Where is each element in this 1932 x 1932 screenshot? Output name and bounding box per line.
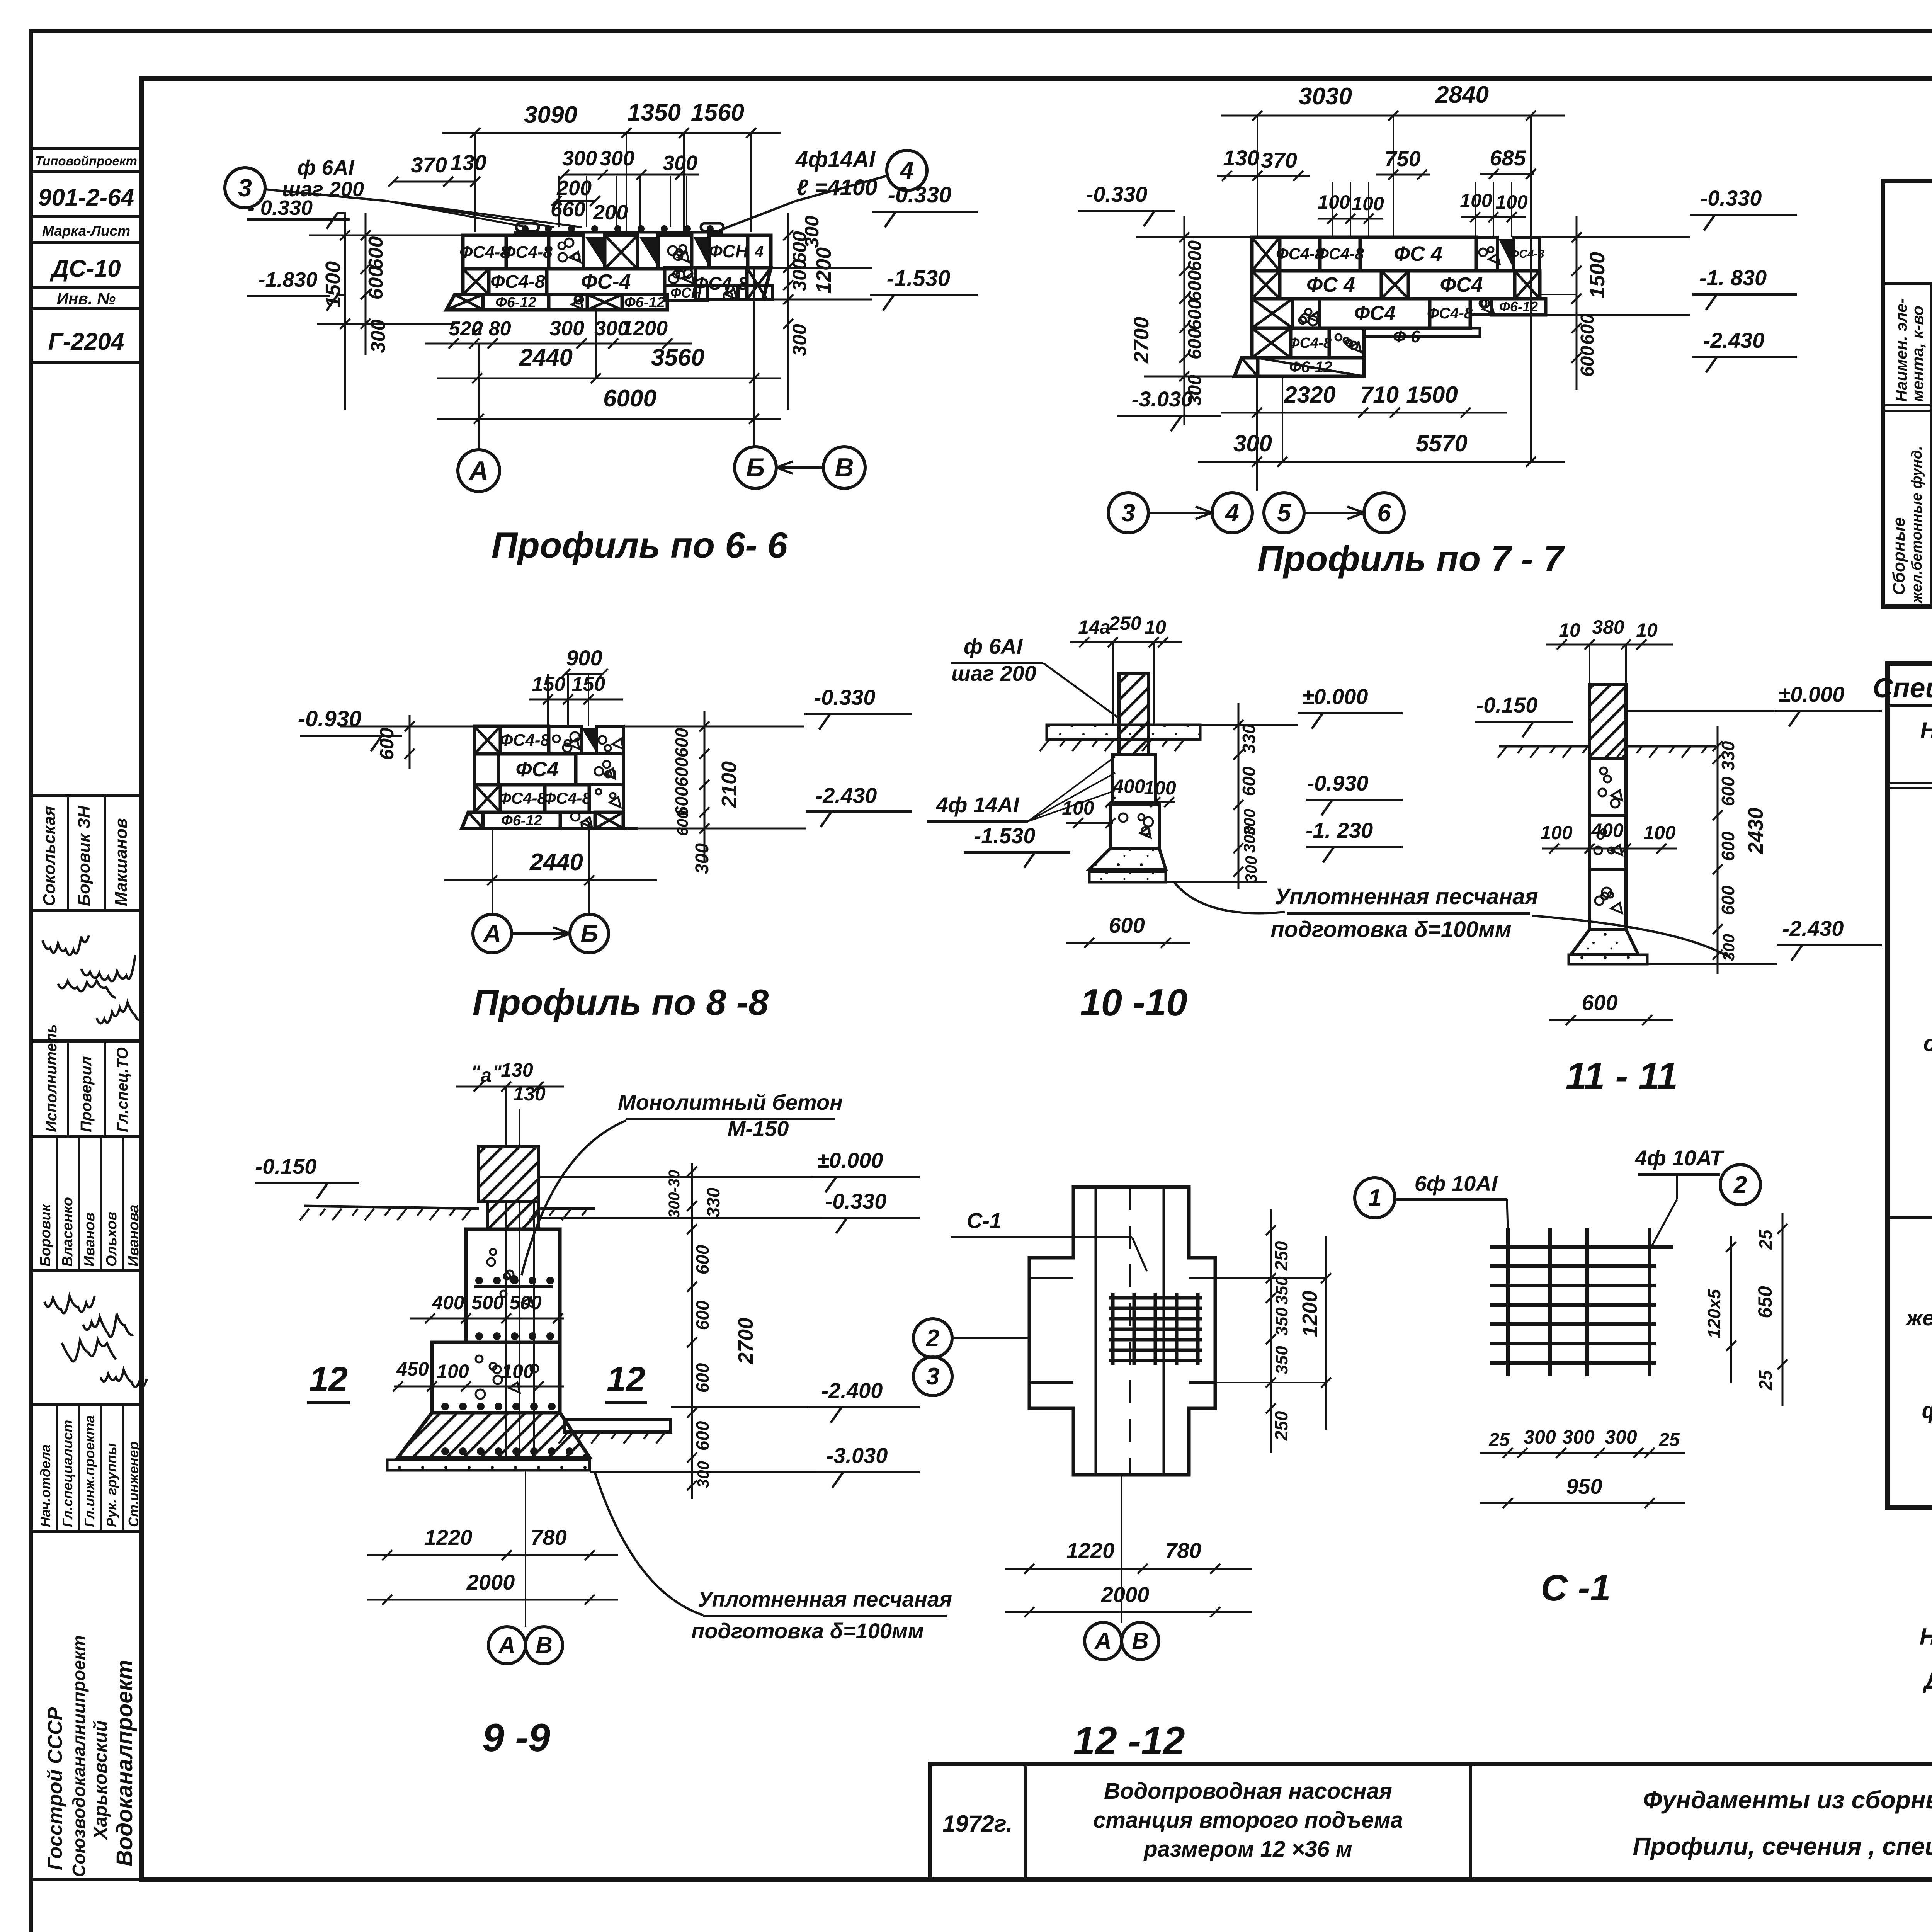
svg-text:2: 2 [1733,1172,1747,1198]
svg-text:Проверил: Проверил [78,1056,95,1132]
svg-text:Исполнитель: Исполнитель [43,1024,60,1132]
svg-text:- 0.330: - 0.330 [248,196,313,219]
profile 7-7 top dims 3030/2840 [1221,115,1565,117]
svg-text:ФС4-8: ФС4-8 [490,272,545,292]
C-1 callout circle 1 [1355,1178,1395,1218]
svg-text:Уплотненная песчаная: Уплотненная песчаная [698,1587,952,1611]
svg-text:ФС4-8: ФС4-8 [502,243,553,262]
svg-text:200: 200 [593,201,628,224]
svg-text:-0.150: -0.150 [255,1154,317,1179]
10-10 right dims [1238,703,1240,889]
svg-text:600: 600 [672,757,692,787]
table: Спецификация сборных железобетонных элементов [1888,663,1932,1508]
svg-text:600: 600 [1718,885,1738,915]
sidebar box: Марка-Лист [31,217,141,242]
svg-text:-0.150: -0.150 [1476,693,1538,717]
svg-text:600: 600 [692,1363,713,1393]
svg-text:6: 6 [1377,499,1391,527]
svg-text:400: 400 [1112,776,1145,797]
svg-text:600: 600 [692,1300,713,1330]
svg-text:ДС-8 , ДС-9 , ДС-11.: ДС-8 , ДС-9 , ДС-11. [1922,1668,1932,1694]
svg-text:-2.430: -2.430 [816,783,877,808]
svg-text:100: 100 [1643,822,1676,844]
svg-text:600: 600 [692,1245,713,1274]
svg-text:350: 350 [1272,1307,1291,1336]
sidebar stamp: signatures block 1 [31,910,141,1041]
sidebar stamp: roles block [31,1041,141,1137]
9-9 monolith block A [466,1229,560,1342]
12-12 mesh C-1 [1109,1296,1202,1300]
profile 8-8 wall row 1 [474,726,500,754]
profile 8-8 right dims [704,711,706,862]
svg-text:В: В [1132,1628,1148,1654]
C-1 bottom dims 25/300/300/300/25 [1480,1452,1685,1454]
svg-text:10: 10 [1559,619,1580,641]
svg-text:150: 150 [532,673,566,696]
sidebar box: Инв. № [31,288,141,309]
sidebar stamp: names block 1 [31,796,141,910]
svg-text:130: 130 [450,150,486,175]
sidebar box: Типовой проект [31,148,141,172]
svg-text:1500: 1500 [321,261,345,308]
profile 7-7 right dims [1576,216,1578,390]
svg-text:Союзводоканалниипроект: Союзводоканалниипроект [69,1635,89,1877]
svg-text:600: 600 [376,728,398,760]
svg-text:1200: 1200 [621,317,668,340]
svg-text:10: 10 [1636,619,1658,641]
profile 6-6 wall blocks row 1 [463,235,506,269]
12-12 bottom dims 1220/780 [1005,1568,1252,1570]
svg-text:шаг 200: шаг 200 [951,661,1036,685]
svg-text:100: 100 [1460,190,1492,211]
svg-text:ФС4-8: ФС4-8 [1316,245,1364,263]
svg-text:С-1: С-1 [967,1208,1002,1233]
svg-text:Боровик: Боровик [37,1203,54,1267]
svg-text:4: 4 [755,243,764,260]
svg-text:4: 4 [899,156,914,184]
svg-text:Водопроводная насосная: Водопроводная насосная [1104,1779,1392,1804]
sidebar box: 901-2-64 [31,172,141,217]
svg-text:250: 250 [1271,1241,1291,1271]
svg-text:300: 300 [692,843,713,874]
svg-text:900: 900 [566,646,602,670]
svg-text:330: 330 [703,1187,723,1217]
profile 6-6 wall blocks row 3 (Ф6-12 strip) [446,294,483,310]
svg-text:-3.030: -3.030 [827,1443,888,1468]
svg-text:Харьковский: Харьковский [90,1720,111,1840]
svg-text:300: 300 [694,1461,712,1488]
svg-text:Сокольская: Сокольская [40,806,59,906]
svg-text:12: 12 [309,1360,348,1399]
svg-text:300: 300 [1240,826,1259,853]
profile 6-6 wall blocks row 2 [463,269,489,294]
svg-text:300: 300 [801,216,823,248]
svg-text:901-2-64: 901-2-64 [38,184,134,211]
callout circle 4 with 4ф14АІ l=4100 [887,150,927,190]
svg-text:1200: 1200 [1298,1291,1321,1337]
svg-text:685: 685 [1490,146,1526,170]
svg-text:1500: 1500 [1406,382,1458,408]
svg-text:400: 400 [1591,820,1624,841]
svg-text:660: 660 [551,198,585,221]
svg-text:-0.930: -0.930 [1307,771,1369,795]
C-1 callout circle 2 [1720,1165,1760,1205]
11-11 hatched column [1590,684,1626,759]
svg-text:Инв. №: Инв. № [57,289,116,308]
svg-text:100: 100 [1062,797,1094,819]
svg-text:600: 600 [365,266,387,300]
svg-text:2700: 2700 [734,1318,757,1364]
12-12 right dims [1270,1209,1272,1453]
svg-text:300: 300 [1605,1426,1637,1448]
svg-text:Уплотненная песчаная: Уплотненная песчаная [1275,884,1538,909]
svg-text:мента, к-во: мента, к-во [1908,306,1927,402]
svg-text:-1. 830: -1. 830 [1699,265,1767,290]
svg-text:12 -12: 12 -12 [1073,1719,1185,1763]
svg-text:400: 400 [432,1292,464,1313]
svg-text:25: 25 [1755,1229,1776,1250]
svg-text:12: 12 [607,1360,645,1399]
profile 6-6 dim 6000 [437,418,781,420]
sidebar stamp: signatures block 2 [31,1271,141,1405]
svg-text:-2.430: -2.430 [1782,916,1844,940]
svg-text:2000: 2000 [466,1570,515,1594]
svg-text:370: 370 [411,153,447,177]
svg-text:ФС4-8: ФС4-8 [500,731,550,750]
svg-text:6ф 10АІ: 6ф 10АІ [1415,1171,1498,1196]
svg-text:А: А [498,1632,515,1658]
svg-text:10: 10 [1145,616,1166,638]
svg-text:450: 450 [396,1358,429,1380]
svg-text:Иванов: Иванов [82,1213,98,1267]
svg-text:1: 1 [1368,1185,1381,1211]
profile 7-7 wall row 4 [1252,328,1291,358]
C-1 right dims [1782,1213,1784,1406]
svg-text:300: 300 [789,324,810,356]
9-9 monolith block B [432,1342,560,1413]
svg-text:250: 250 [1109,612,1141,634]
svg-text:11 - 11: 11 - 11 [1566,1054,1678,1097]
profile 7-7 wall row 2 [1252,271,1280,299]
profile 6-6 dim 2440/3560 [437,378,781,379]
svg-text:ФС-4: ФС-4 [581,270,631,293]
svg-text:ФС4-8: ФС4-8 [498,789,546,807]
svg-text:стен подвала: стен подвала [1923,1031,1932,1056]
9-9 bottom dims 1220/780 [367,1554,618,1556]
profile 6-6 bottom dims 520/280/300/300/1200 [425,343,692,345]
svg-text:ф 6АІ: ф 6АІ [964,634,1023,658]
svg-text:ФС4-8: ФС4-8 [1510,248,1544,260]
sidebar stamp: positions block [31,1405,141,1531]
svg-text:Гл.инж.проекта: Гл.инж.проекта [82,1415,97,1527]
svg-text:±0.000: ±0.000 [1302,684,1368,709]
12-12 axis circles 2 3 [913,1319,952,1357]
svg-text:3030: 3030 [1299,83,1352,110]
sidebar box: ДС-10 [31,242,141,288]
svg-text:100: 100 [437,1361,469,1382]
profile 7-7 left dims [1184,216,1185,425]
svg-text:ФС4: ФС4 [1354,302,1395,325]
svg-text:А: А [483,920,501,947]
svg-text:250: 250 [1271,1411,1291,1441]
svg-text:В: В [536,1632,552,1658]
svg-text:600: 600 [1577,314,1598,345]
svg-text:Профили, сечения , спецификаци: Профили, сечения , спецификация. [1633,1832,1932,1860]
svg-text:ФС4: ФС4 [1440,273,1483,296]
svg-text:120x5: 120x5 [1704,1289,1724,1338]
svg-text:100: 100 [1318,191,1350,213]
profile 6-6 axis circle А [458,450,500,492]
svg-text:-1.530: -1.530 [887,266,950,291]
svg-text:130: 130 [1223,146,1259,170]
svg-text:100: 100 [1144,777,1176,799]
svg-text:фундаментов: фундаментов [1922,1398,1932,1423]
profile 7-7 bottom dims 2320/710/1500 [1221,412,1507,414]
9-9 right floor slab [564,1419,671,1432]
svg-text:ФС4: ФС4 [515,758,558,781]
svg-text:-0.930: -0.930 [298,706,361,731]
profile 8-8 axis circles А Б [473,914,512,953]
svg-text:600: 600 [1582,990,1617,1015]
svg-text:2700: 2700 [1130,317,1153,364]
svg-text:размером 12 ×36 м: размером 12 ×36 м [1143,1837,1352,1862]
profile 8-8 bottom dim 2440 [444,879,657,881]
svg-text:Монолитный бетон: Монолитный бетон [618,1090,843,1114]
svg-text:Профиль по 7 - 7: Профиль по 7 - 7 [1257,538,1565,579]
svg-text:600: 600 [365,236,387,270]
svg-text:600: 600 [1185,299,1205,330]
svg-text:-0.330: -0.330 [814,685,876,709]
svg-text:300: 300 [562,147,597,170]
svg-text:300: 300 [1719,934,1738,961]
svg-text:600: 600 [1239,766,1259,796]
svg-text:2440: 2440 [519,344,573,371]
svg-text:Типовойпроект: Типовойпроект [35,154,137,168]
svg-text:600: 600 [1185,240,1205,271]
svg-text:ФС 4: ФС 4 [1394,242,1442,265]
svg-text:130: 130 [501,1059,533,1081]
svg-text:ДС-10: ДС-10 [49,255,121,282]
9-9 axis circles А В [488,1627,526,1664]
11-11 bottom dim 600 [1549,1019,1673,1021]
svg-text:-0.330: -0.330 [1086,182,1148,206]
svg-text:330: 330 [1718,741,1738,770]
svg-text:500: 500 [471,1292,504,1313]
svg-text:-2.400: -2.400 [821,1378,883,1403]
svg-text:380: 380 [1592,616,1624,638]
svg-text:300: 300 [1233,430,1272,456]
svg-text:А: А [1094,1628,1111,1654]
profile 7-7 bottom dims 300/5570 [1198,461,1565,463]
svg-text:Спецификация сборных железобет: Спецификация сборных железобетонных элем… [1873,673,1932,704]
svg-text:4: 4 [1225,499,1239,527]
svg-text:Б: Б [580,920,598,947]
svg-text:ФС4-8: ФС4-8 [543,789,591,807]
11-11 pier dotted blocks [1590,759,1626,815]
12-12 bottom dim 2000 [1005,1611,1252,1613]
C-1 mesh bars [1506,1228,1510,1376]
svg-text:±0.000: ±0.000 [1779,682,1845,706]
profile 6-6 axis circle Б [735,447,776,488]
profile 6-6 top rebar dots [522,225,529,232]
svg-text:ФСН: ФСН [709,241,748,261]
svg-text:2000: 2000 [1101,1582,1150,1607]
svg-text:650: 650 [1754,1286,1776,1318]
svg-text:-0.330: -0.330 [825,1189,887,1213]
svg-text:350: 350 [1272,1346,1291,1374]
svg-text:Власенко: Власенко [60,1197,76,1267]
12-12 axis circles А В [1085,1622,1122,1660]
svg-text:25: 25 [1755,1370,1776,1391]
svg-text:подготовка δ=100мм: подготовка δ=100мм [1270,917,1511,942]
C-1 bottom dim 950 [1480,1502,1685,1504]
profile 6-6 top dimension chain 3090/1350/1560 [442,132,781,134]
table: Спецификация арматуры [1883,181,1932,607]
svg-text:600: 600 [1109,913,1145,937]
svg-text:-2.430: -2.430 [1703,328,1765,352]
profile 7-7 axis circles 3 4 5 6 [1108,493,1148,533]
svg-text:6000: 6000 [603,385,656,412]
svg-text:710: 710 [1360,382,1399,408]
svg-text:Иванова: Иванова [126,1204,142,1267]
svg-text:С -1: С -1 [1541,1567,1611,1609]
svg-text:1560: 1560 [691,99,744,126]
svg-text:1220: 1220 [424,1525,473,1549]
svg-text:1500: 1500 [1586,252,1609,298]
svg-text:300: 300 [549,317,584,340]
svg-text:ф 6АІ: ф 6АІ [298,156,355,179]
profile 7-7 wall row 5 (Ф6-12) [1235,358,1258,376]
svg-text:подготовка δ=100мм: подготовка δ=100мм [691,1619,924,1643]
svg-text:370: 370 [1261,148,1297,172]
svg-text:780: 780 [1165,1538,1201,1563]
svg-text:Гл.специалист: Гл.специалист [60,1420,75,1527]
9-9 monolith base trapezoid [398,1413,590,1458]
profile 6-6 axis circle В [823,447,865,488]
svg-text:Ольхов: Ольхов [104,1212,120,1267]
svg-text:Наименование: Наименование [1920,718,1932,743]
title block [930,1764,1932,1879]
profile 8-8 wall row 4 (Ф6-12) [462,812,483,828]
svg-text:600: 600 [674,810,691,836]
svg-text:1972г.: 1972г. [942,1811,1012,1837]
svg-text:3: 3 [926,1363,939,1390]
profile 7-7 wall row 3 [1252,299,1293,328]
sidebar stamp: names block 2 [31,1137,141,1271]
svg-text:Рук. группы: Рук. группы [104,1443,119,1527]
profile 6-6 left dim verticals [344,213,346,410]
svg-text:Гл.спец.ТО: Гл.спец.ТО [114,1047,131,1132]
drawing: section 12-12 (plan) [1029,1187,1215,1475]
bottom margin strip line [31,1878,141,1881]
svg-text:-0.330: -0.330 [1701,186,1762,210]
svg-text:300: 300 [1242,856,1260,883]
svg-text:25: 25 [1488,1430,1510,1450]
svg-text:1350: 1350 [628,99,681,126]
svg-text:Ф6-12: Ф6-12 [624,294,665,311]
svg-text:Наимен. эле-: Наимен. эле- [1892,298,1910,402]
svg-text:750: 750 [1384,146,1420,171]
svg-text:9 -9: 9 -9 [482,1716,550,1760]
svg-text:Ф6-12: Ф6-12 [495,294,536,311]
svg-text:станция второго подъема: станция второго подъема [1093,1808,1403,1833]
svg-text:600: 600 [1185,328,1205,359]
svg-text:14а: 14а [1078,616,1110,638]
svg-text:2 80: 2 80 [471,318,511,340]
svg-text:-3.030: -3.030 [1132,387,1193,411]
svg-text:Боровик ЗН: Боровик ЗН [75,805,94,906]
svg-text:300: 300 [600,147,634,170]
svg-text:10 -10: 10 -10 [1080,981,1187,1024]
svg-text:600: 600 [1577,346,1598,377]
svg-text:Нач.отдела: Нач.отдела [37,1444,53,1527]
svg-text:600: 600 [692,1421,713,1451]
svg-text:жел.бетонные фунд.: жел.бетонные фунд. [1909,446,1925,604]
10-10 pier blocks [1113,755,1155,805]
svg-text:1200: 1200 [812,247,835,294]
svg-text:600: 600 [1185,270,1205,301]
svg-text:600: 600 [1718,831,1738,861]
svg-text:М-150: М-150 [728,1116,789,1141]
svg-text:Госстрой СССР: Госстрой СССР [44,1707,66,1870]
svg-text:Ф 6: Ф 6 [1393,327,1420,346]
svg-text:600: 600 [672,728,692,757]
svg-text:±0.000: ±0.000 [817,1148,883,1172]
svg-text:ФС4-8: ФС4-8 [1427,305,1473,322]
profile 8-8 wall row 2 [474,754,498,785]
profile 8-8 wall row 3 [474,785,500,812]
callout circle 3 with ф6АІ шаг200 [225,168,265,208]
svg-text:300: 300 [1562,1426,1595,1448]
svg-text:-1.530: -1.530 [974,823,1036,848]
9-9 bottom dim 2000 [367,1599,618,1601]
9-9 right dims [691,1163,693,1499]
svg-text:780: 780 [531,1525,566,1549]
svg-text:2440: 2440 [529,849,583,876]
svg-text:600: 600 [1718,776,1738,806]
sidebar box: Г-2204 [31,309,141,362]
sidebar stamp: organization block [31,1531,141,1880]
svg-text:2320: 2320 [1284,382,1335,408]
svg-text:Ст.инженер: Ст.инженер [126,1441,141,1527]
svg-text:300: 300 [1524,1426,1556,1448]
svg-text:5570: 5570 [1416,430,1467,456]
svg-text:В: В [835,453,854,482]
svg-text:100: 100 [1540,822,1573,844]
svg-text:950: 950 [1566,1474,1602,1498]
svg-text:железобетонные: железобетонные [1905,1306,1932,1330]
svg-text:ФС 4: ФС 4 [1306,273,1355,296]
svg-text:Водоканалпроект: Водоканалпроект [112,1660,137,1866]
svg-text:5: 5 [1277,499,1291,527]
svg-text:2840: 2840 [1435,82,1489,108]
svg-text:2100: 2100 [718,761,741,808]
10-10 bottom dim 600 [1066,942,1190,944]
svg-text:-0.330: -0.330 [888,182,951,207]
svg-text:2430: 2430 [1744,808,1767,854]
svg-text:300: 300 [663,151,697,175]
svg-text:3090: 3090 [524,102,577,128]
svg-text:Марка-Лист: Марка-Лист [42,223,130,239]
svg-text:Настоящий чертеж рассматрив: Настоящий чертеж рассматривать совместно… [1920,1624,1932,1650]
9-9 hatched column [479,1146,539,1202]
svg-text:500: 500 [509,1292,542,1313]
svg-text:": " [471,1061,481,1083]
svg-text:3: 3 [1121,499,1135,527]
svg-text:Профиль по 8 -8: Профиль по 8 -8 [473,982,769,1022]
svg-text:Г-2204: Г-2204 [48,328,124,355]
11-11 right dims [1717,726,1719,974]
